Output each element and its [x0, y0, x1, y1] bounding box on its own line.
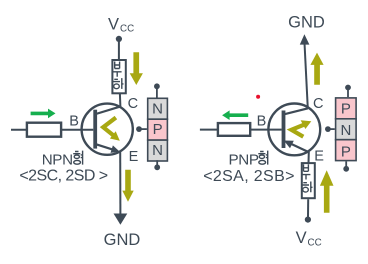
svg-text:C: C	[313, 96, 323, 112]
current arrow Ic up (olive, top right)	[310, 53, 323, 85]
transistor Q1 emitter lead with arrow	[96, 144, 114, 150]
wire dot to N box	[156, 86, 158, 97]
region box P (bottom)	[336, 140, 357, 161]
transistor Q2 base bar	[282, 111, 286, 149]
base wire (input, right)	[200, 129, 282, 131]
svg-text:CC: CC	[120, 24, 134, 35]
input resistor RB1	[27, 123, 61, 137]
region box P (middle)	[148, 119, 168, 140]
svg-text:C: C	[128, 96, 138, 112]
region box P (top)	[336, 98, 357, 119]
transistor Q2 circle	[268, 103, 320, 155]
svg-text:N: N	[152, 100, 163, 117]
terminal dot VCC (right)	[305, 217, 311, 223]
svg-text:P: P	[341, 143, 351, 160]
label NPN형	[42, 151, 83, 169]
svg-text:PNP: PNP	[229, 151, 259, 168]
bottom wire stub (NPN stack)	[156, 160, 158, 167]
base tap wire (PNP stack)	[328, 128, 335, 130]
letters P N P	[340, 100, 351, 160]
bottom terminal dot (PNP stack)	[343, 166, 349, 172]
svg-text:B: B	[257, 114, 267, 130]
top terminal dot (PNP stack)	[345, 85, 351, 91]
letters N P N	[152, 100, 163, 159]
current arrow Ie down (olive, bottom left)	[122, 170, 133, 202]
transistor Q2 emitter lead with arrow into base	[289, 143, 309, 153]
base tap dot (NPN stack)	[136, 126, 142, 132]
load resistor RL1 (부하)	[112, 60, 125, 93]
bottom terminal dot (NPN stack)	[154, 164, 160, 170]
region box N (bottom)	[148, 140, 168, 161]
collector wire up to GND (slanted)	[305, 43, 308, 109]
value label 부하 vertical	[112, 62, 123, 89]
wire load to collector node	[119, 94, 122, 107]
label PNP형	[229, 151, 268, 169]
svg-text:E: E	[129, 149, 139, 165]
bottom wire stub (PNP stack)	[345, 161, 347, 168]
svg-text:NPN: NPN	[42, 151, 73, 168]
wire load to VCC dot	[307, 199, 309, 217]
top terminal dot (NPN stack)	[154, 83, 160, 89]
input current arrow (green, left)	[222, 110, 248, 120]
GND arrowhead (right, up)	[300, 34, 310, 44]
wire dot to P box	[347, 88, 349, 98]
emitter wire down to GND	[119, 152, 121, 216]
transistor Q1 circle	[82, 104, 133, 155]
base wire (input, left)	[11, 129, 93, 131]
svg-text:P: P	[341, 100, 351, 117]
region box N (middle)	[336, 119, 357, 140]
svg-text:V: V	[296, 229, 307, 247]
terminal dot VCC (left)	[116, 36, 122, 42]
label VCC (left)	[108, 16, 134, 35]
transistor Q1 base bar	[93, 110, 97, 149]
region box N (top)	[148, 98, 168, 119]
svg-text:B: B	[69, 114, 79, 130]
transistor Q2 collector lead	[285, 108, 309, 114]
current arrow inside Q2 (olive bent)	[291, 120, 311, 136]
current arrow Ie up (olive, bottom right)	[320, 170, 334, 213]
svg-text:GND: GND	[288, 13, 325, 31]
transistor Q1 collector lead	[96, 106, 121, 114]
svg-text:<2SC, 2SD >: <2SC, 2SD >	[19, 167, 107, 184]
current arrow inside Q1 (olive bent)	[103, 118, 120, 141]
svg-text:GND: GND	[104, 231, 141, 249]
svg-text:N: N	[340, 122, 351, 139]
wire VCC dot to load resistor	[118, 39, 120, 60]
input resistor RB2	[218, 123, 250, 136]
red dot marker	[256, 95, 260, 99]
input current arrow (green, right)	[31, 109, 56, 119]
emitter wire to load	[308, 152, 310, 163]
svg-text:P: P	[153, 121, 163, 138]
current arrow Ic down (olive, top left)	[130, 52, 143, 85]
svg-text:E: E	[314, 149, 324, 165]
label VCC (right)	[296, 229, 322, 249]
base tap dot (PNP stack)	[325, 126, 331, 132]
load resistor RL2 (부하)	[302, 163, 315, 198]
svg-text:<2SA, 2SB>: <2SA, 2SB>	[203, 168, 295, 185]
base tap wire (NPN stack)	[139, 128, 147, 130]
value label 부하 vertical (right)	[301, 164, 312, 192]
svg-text:CC: CC	[308, 238, 322, 249]
svg-text:V: V	[108, 16, 119, 34]
GND arrowhead (left)	[114, 214, 128, 225]
svg-text:N: N	[152, 142, 163, 159]
